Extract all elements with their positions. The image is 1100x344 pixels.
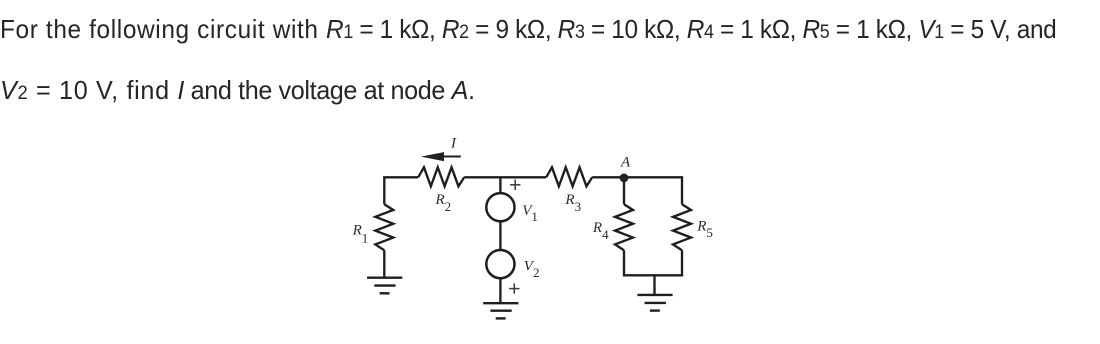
current arrow tail (443, 156, 461, 158)
wire V2 to ground (499, 279, 501, 304)
wire top-left corner: R2 entry to left corner down to R1 top (384, 177, 418, 204)
resistor R5 (673, 204, 691, 250)
svg-text:R4: R4 (592, 220, 609, 242)
plus sign V1 (510, 180, 520, 190)
resistor R1 (375, 204, 393, 250)
wire bottom to ground G3 (653, 275, 655, 295)
plus sign V2 (509, 283, 519, 293)
wire junction to V1 (499, 177, 501, 193)
wire R2 to R3 with junction (464, 176, 546, 178)
svg-text:A: A (620, 154, 631, 170)
wire V1 to V2 (499, 222, 501, 250)
ground G2 (483, 303, 518, 318)
source V2 circle (486, 250, 514, 278)
wire R1 bottom to ground (383, 250, 385, 278)
ground G1 (367, 278, 402, 294)
svg-text:R1: R1 (352, 222, 369, 245)
node A dot (620, 174, 629, 183)
ground G3 (637, 295, 672, 311)
source V1 circle (486, 193, 514, 221)
svg-text:R5: R5 (696, 218, 713, 240)
wire node A down to R4 (623, 178, 625, 204)
svg-text:R3: R3 (564, 192, 581, 214)
svg-text:V1: V1 (522, 203, 538, 224)
bottom wire R4 R5 (624, 250, 682, 275)
current arrow head (421, 152, 444, 161)
resistor R2 (418, 167, 464, 186)
resistor R3 (546, 167, 592, 186)
svg-text:R2: R2 (435, 192, 452, 214)
svg-text:I: I (450, 136, 457, 152)
svg-text:V2: V2 (524, 259, 540, 280)
wire R3 to right corner down to R5 (592, 177, 682, 204)
resistor R4 (615, 204, 633, 250)
